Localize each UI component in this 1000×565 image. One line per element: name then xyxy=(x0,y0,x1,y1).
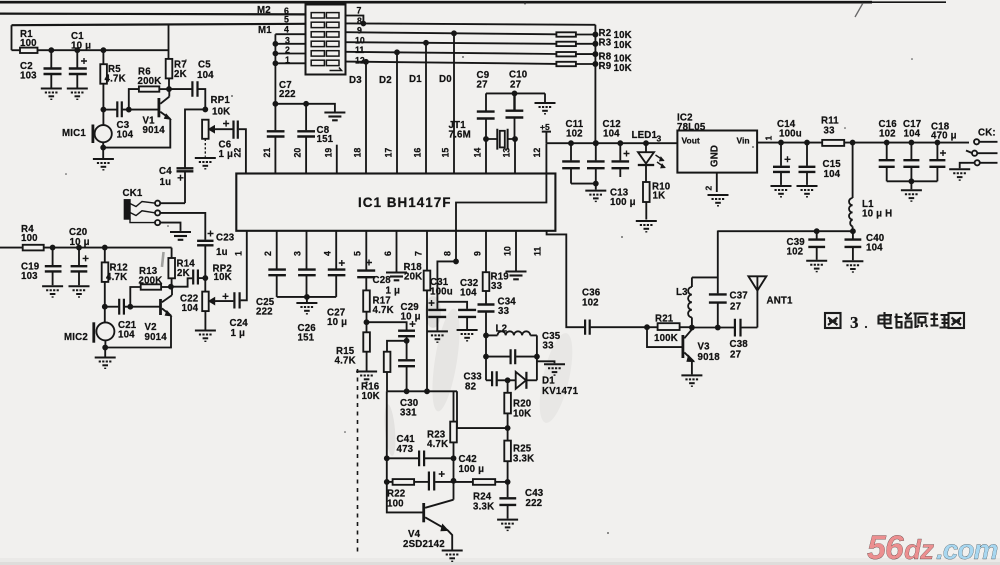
ground (C9/C10 link) xyxy=(544,93,546,102)
wire: CK1 tip to C4 xyxy=(160,202,185,204)
svg-text:4: 4 xyxy=(284,25,289,35)
wire: C9/C10 top link xyxy=(486,92,545,94)
resistor R19 xyxy=(483,272,490,291)
node: R14 bottom xyxy=(169,285,173,289)
capacitor C33 xyxy=(486,379,491,381)
svg-text:1 μ: 1 μ xyxy=(219,149,234,160)
wire: M1 tap down to R1 xyxy=(11,25,13,50)
resistor R24 xyxy=(454,481,473,483)
svg-text:470 μ: 470 μ xyxy=(931,131,957,142)
svg-text:104: 104 xyxy=(824,169,841,180)
transistor V1 (9014) xyxy=(157,98,160,117)
svg-text:100: 100 xyxy=(20,38,37,49)
ground (pin 10) xyxy=(506,272,527,280)
svg-text:20: 20 xyxy=(293,148,303,158)
svg-text:D0: D0 xyxy=(439,74,452,85)
capacitor C40 xyxy=(852,231,854,238)
node: MIC2 bottom xyxy=(103,346,107,350)
svg-text:222: 222 xyxy=(526,498,543,509)
node: LED1 tap xyxy=(644,141,648,145)
wire: DIP row 10 to R3 xyxy=(346,42,557,44)
svg-text:9018: 9018 xyxy=(698,352,721,363)
svg-text:8: 8 xyxy=(443,251,453,256)
svg-text:33: 33 xyxy=(498,306,510,317)
node: row3 junction xyxy=(273,42,277,46)
ground (RP2) xyxy=(195,331,216,342)
svg-text:27: 27 xyxy=(730,302,741,313)
wire: M2 bus (DIP row 6) xyxy=(0,13,306,16)
wire: Vin to C14 rail xyxy=(757,142,969,144)
watermark 56dz.com xyxy=(867,529,997,565)
node: C14 tap xyxy=(779,141,783,145)
svg-text:10K: 10K xyxy=(614,63,632,74)
capacitor C23 (electrolytic) xyxy=(197,241,213,246)
svg-text:1 μ: 1 μ xyxy=(231,328,246,339)
wire: pin 6 lead xyxy=(396,231,398,272)
svg-text:D3: D3 xyxy=(349,75,362,86)
resistor R14 xyxy=(171,248,173,258)
svg-text:10K: 10K xyxy=(214,272,232,283)
svg-text:10 μ: 10 μ xyxy=(401,312,421,323)
capacitor C37 xyxy=(717,231,719,294)
ground (C11/C12) xyxy=(595,184,597,190)
wire: C25-C27 ground bus xyxy=(277,296,337,298)
node: R8 common xyxy=(593,52,597,56)
wire: D1 vertical to pin 16 xyxy=(425,43,427,174)
svg-text:4.7K: 4.7K xyxy=(427,439,448,450)
capacitor C7 xyxy=(274,104,276,131)
wire: R2-R9 rights to +5 vertical xyxy=(576,35,596,65)
ground (C39) xyxy=(806,261,827,272)
capacitor C41 xyxy=(387,457,418,459)
capacitor C39 xyxy=(816,231,818,238)
node: C35 left xyxy=(484,355,488,359)
wire: oscillator bus xyxy=(387,390,457,392)
node: crystal right xyxy=(513,137,517,141)
wire: DIP row 3 xyxy=(275,43,305,45)
resistor R23 xyxy=(453,391,455,421)
resistor R15 xyxy=(366,322,368,332)
node: R18 on bus xyxy=(425,389,429,393)
node: L1 tap xyxy=(851,141,855,145)
resistor R12 xyxy=(104,248,106,263)
connector CK2 xyxy=(974,139,979,144)
wire: pin 19 stub xyxy=(336,145,338,174)
wire: DIP row 1 xyxy=(275,62,305,64)
node: L1/C40 xyxy=(851,229,855,233)
svg-text:7.6M: 7.6M xyxy=(449,130,471,141)
node: C29/C30/R16 xyxy=(405,339,409,343)
capacitor C9 xyxy=(477,112,495,119)
wire: pin 10 lead xyxy=(515,231,517,271)
node: C42/R24/collector xyxy=(452,479,456,483)
wire: pin 21 lead xyxy=(274,137,276,173)
svg-text:19: 19 xyxy=(323,148,333,158)
capacitor C17 xyxy=(910,143,912,160)
resistor R4 xyxy=(23,245,44,251)
ground (C2) xyxy=(41,89,62,100)
node: C13 tap xyxy=(618,141,622,145)
wire: CK1 sleeve to ground xyxy=(160,223,180,231)
capacitor C32 xyxy=(458,310,476,317)
node: tank left top xyxy=(484,333,488,337)
svg-text:2: 2 xyxy=(704,186,714,191)
op-amp IC1 BH1417F body xyxy=(236,174,555,231)
svg-text:R21: R21 xyxy=(655,314,674,325)
wire: pin 9 lead xyxy=(485,231,487,272)
power +5 (pin12) xyxy=(542,131,551,133)
svg-text:200K: 200K xyxy=(139,276,163,287)
svg-text:10 μ: 10 μ xyxy=(71,41,91,52)
node: C41 right xyxy=(452,456,456,460)
svg-text:R3: R3 xyxy=(599,38,612,49)
resistor R5 xyxy=(102,50,104,64)
wire: osc left vertical xyxy=(387,391,424,512)
wire: pin 14 lead up through C9 xyxy=(485,93,487,173)
wire: V1 emitter down to mic ground line xyxy=(103,119,170,148)
svg-text:104: 104 xyxy=(118,330,135,341)
svg-text:10K: 10K xyxy=(614,40,632,51)
svg-text:D2: D2 xyxy=(379,75,392,86)
svg-text:102: 102 xyxy=(879,129,896,140)
svg-text:20K: 20K xyxy=(404,272,422,283)
scratch mark top right xyxy=(855,3,863,17)
svg-text:100 μ: 100 μ xyxy=(459,464,485,475)
node: C8 top xyxy=(304,102,308,106)
svg-text:GND: GND xyxy=(710,145,721,167)
capacitor C42 (electrolytic) xyxy=(414,481,428,483)
wire: M1 bus (DIP row 5) xyxy=(12,24,306,25)
svg-text:16: 16 xyxy=(413,148,423,158)
svg-text:4: 4 xyxy=(322,251,332,256)
capacitor C28 (electrolytic) xyxy=(357,271,375,278)
ground (C7/C8) xyxy=(324,113,345,121)
capacitor C26 xyxy=(298,270,316,276)
wire: R6 right to R7 node xyxy=(159,88,169,90)
capacitor C21 xyxy=(105,306,119,308)
ground (C19) xyxy=(42,286,63,297)
transistor V3 (9018) xyxy=(682,335,685,358)
svg-text:11: 11 xyxy=(355,45,364,55)
wire: V2 emitter to mic ground line xyxy=(105,316,171,348)
potentiometer RP2 xyxy=(204,278,206,292)
node: C17 tap xyxy=(909,141,913,145)
svg-text:100: 100 xyxy=(21,233,38,244)
wire: pin 5 lead xyxy=(365,231,367,270)
svg-text:104: 104 xyxy=(866,243,883,254)
svg-text:222: 222 xyxy=(256,307,273,318)
svg-text:102: 102 xyxy=(787,247,804,258)
svg-text:C28: C28 xyxy=(373,275,392,286)
ground (R15) xyxy=(356,372,377,383)
node: MIC1 bottom xyxy=(101,146,105,150)
svg-text:IC1 BH1417F: IC1 BH1417F xyxy=(358,195,452,210)
svg-text:9014: 9014 xyxy=(143,125,166,136)
node: C18 tap xyxy=(935,141,939,145)
svg-text:10 μ H: 10 μ H xyxy=(862,209,892,220)
capacitor C18 (electrolytic) xyxy=(936,143,938,160)
svg-text:103: 103 xyxy=(21,271,38,282)
svg-text:11: 11 xyxy=(533,247,543,256)
resistor R25 xyxy=(504,441,511,462)
wire: pin 20 lead xyxy=(305,137,307,173)
wire: collector node to C38 xyxy=(692,327,734,329)
potentiometer RP1 xyxy=(202,120,209,139)
capacitor C13 (electrolytic) xyxy=(619,143,621,160)
node: C7 top xyxy=(273,102,277,106)
svg-text:M2: M2 xyxy=(257,5,271,16)
transistor V2 (9014) xyxy=(159,299,162,315)
svg-text:10K: 10K xyxy=(362,391,380,402)
inductor L1 xyxy=(852,143,854,198)
antenna ANT1 xyxy=(756,276,758,327)
svg-text:33: 33 xyxy=(824,126,836,137)
ground (C15) xyxy=(797,186,818,197)
LED LED1 xyxy=(645,143,647,152)
wire: bus right jog to R20/R25 xyxy=(457,391,508,428)
svg-text:6: 6 xyxy=(383,251,393,256)
capacitor C22 xyxy=(171,278,192,286)
node: RP2 top / C22 xyxy=(203,276,207,280)
ground (C40) xyxy=(842,261,863,272)
svg-text:331: 331 xyxy=(400,408,417,419)
wire: mic1 supply rail xyxy=(38,49,169,51)
ground (pin 6) xyxy=(386,273,407,281)
svg-text:3.3K: 3.3K xyxy=(473,502,494,513)
svg-text:C38: C38 xyxy=(730,339,749,350)
node: C39 xyxy=(815,229,819,233)
svg-text:33: 33 xyxy=(491,281,503,292)
ground (C1) xyxy=(67,89,88,100)
capacitor C16 xyxy=(886,143,888,160)
svg-text:8: 8 xyxy=(357,16,362,26)
ground (C31) xyxy=(427,331,448,342)
svg-text:MIC1: MIC1 xyxy=(62,128,86,139)
wire: V3 base feed xyxy=(647,327,683,347)
svg-text:103: 103 xyxy=(20,71,37,82)
node: crystal left xyxy=(484,137,488,141)
wire: D2 vertical to pin 17 xyxy=(396,52,398,173)
svg-text:13: 13 xyxy=(502,148,512,158)
node: R17/R15/C29 xyxy=(365,320,369,324)
svg-text:10 μ: 10 μ xyxy=(70,237,90,248)
resistor R3 xyxy=(556,42,576,46)
node: R20/R25 junction xyxy=(506,426,510,430)
svg-text:10: 10 xyxy=(355,36,365,46)
svg-text:1u: 1u xyxy=(160,177,172,188)
wire: DIP row 9 to R2 xyxy=(346,32,557,34)
svg-text:1K: 1K xyxy=(653,191,666,202)
ground (CK2) xyxy=(949,169,970,180)
svg-text:27: 27 xyxy=(477,80,488,91)
svg-text:104: 104 xyxy=(603,129,620,140)
capacitor C27 (electrolytic) xyxy=(328,270,346,276)
node: R12 tap xyxy=(103,246,107,250)
wire: pin 2 lead xyxy=(276,231,278,269)
svg-text:2K: 2K xyxy=(177,268,190,279)
ground (C16-C18) xyxy=(910,181,912,189)
resistor R20 xyxy=(507,380,509,393)
svg-text:104: 104 xyxy=(460,288,477,299)
svg-text:4.7K: 4.7K xyxy=(106,272,127,283)
svg-text:R9: R9 xyxy=(599,61,612,72)
wire: C32 branch xyxy=(437,302,467,309)
ground (RP1) xyxy=(195,158,216,169)
capacitor C30 xyxy=(406,341,408,360)
svg-text:C4: C4 xyxy=(159,166,172,177)
ground (V3) xyxy=(681,375,702,386)
wire: DIP row 7 stub xyxy=(346,16,364,24)
wire: M1-line tap down to R7 xyxy=(168,25,170,59)
ground (C14) xyxy=(771,186,792,197)
svg-text:100u: 100u xyxy=(430,287,453,298)
svg-text:104: 104 xyxy=(904,129,921,140)
ground (IC2 GND pin) xyxy=(708,195,729,206)
svg-text:473: 473 xyxy=(397,444,414,455)
svg-text:27: 27 xyxy=(730,350,741,361)
resistor R16 xyxy=(384,352,391,372)
node: row2 junction xyxy=(273,52,277,56)
capacitor C36 xyxy=(585,320,590,335)
svg-text:L3: L3 xyxy=(676,287,688,298)
wire: rows 1-4 common vertical xyxy=(274,34,276,104)
node: C11 tap xyxy=(569,141,573,145)
capacitor C2 xyxy=(50,50,52,67)
svg-text:2SD2142: 2SD2142 xyxy=(403,539,445,550)
svg-text:104: 104 xyxy=(117,130,134,141)
node: R9 common xyxy=(593,62,597,66)
ground (V4) xyxy=(442,551,463,562)
dashed margin line xyxy=(357,369,359,554)
node: C26 gnd xyxy=(305,295,309,299)
resistor R9 xyxy=(556,62,576,66)
wire: C29 top branch xyxy=(367,322,407,330)
svg-text:CK:: CK: xyxy=(978,128,996,139)
ground (C32) xyxy=(457,330,478,341)
svg-text:14: 14 xyxy=(472,148,482,158)
svg-text:1u: 1u xyxy=(216,247,228,258)
wire: tank right to ground xyxy=(537,361,555,363)
resistor R2 xyxy=(556,32,576,36)
svg-text:+5: +5 xyxy=(540,122,550,132)
svg-text:C37: C37 xyxy=(730,291,748,302)
svg-text:104: 104 xyxy=(197,70,214,81)
wire: pull-up common vertical to +5 rail xyxy=(594,25,596,143)
svg-text:9: 9 xyxy=(472,251,482,256)
node: C1 tap xyxy=(75,48,79,52)
wire: pin 13 lead xyxy=(514,139,516,174)
node: R6-left/base xyxy=(127,108,131,112)
wire: tank right vertical xyxy=(536,335,538,380)
capacitor C11 xyxy=(570,143,572,160)
svg-text:102: 102 xyxy=(566,129,583,140)
capacitor C34 xyxy=(478,305,495,312)
node: C2 tap xyxy=(49,48,53,52)
svg-text:151: 151 xyxy=(298,333,315,344)
node: D0 tap on row9 xyxy=(452,31,456,35)
capacitor C35 xyxy=(486,356,510,358)
resistor R8 xyxy=(556,52,576,56)
svg-text:100 μ: 100 μ xyxy=(610,197,636,208)
wire: DIP row 2 xyxy=(275,53,305,55)
node: row1 junction xyxy=(273,61,277,65)
node: C15 tap xyxy=(805,141,809,145)
svg-text:222: 222 xyxy=(279,89,296,100)
wire: pin 7 lead xyxy=(426,231,428,271)
capacitor C38 xyxy=(735,319,741,337)
resistor R17 xyxy=(363,290,370,311)
svg-text:4.7K: 4.7K xyxy=(373,305,394,316)
svg-text:3: 3 xyxy=(850,313,859,332)
capacitor C8 xyxy=(305,104,307,131)
ground (CK1) xyxy=(170,232,191,240)
wire: C16-C18 ground bus xyxy=(887,180,938,182)
switch S1 (6x DIP switch) xyxy=(306,5,346,75)
node: C19 tap xyxy=(51,246,55,250)
wire: D0 vertical to pin 15 xyxy=(453,33,455,173)
node: D3 tap on row12 xyxy=(364,60,368,64)
svg-text:V3: V3 xyxy=(698,342,711,353)
node: R3 common xyxy=(593,42,597,46)
wire: R13 right to R14 node xyxy=(161,286,171,288)
ground (C20) xyxy=(69,286,90,297)
svg-text:ANT1: ANT1 xyxy=(767,296,794,307)
top border line xyxy=(0,1,872,4)
inductor L3 xyxy=(692,276,718,278)
node: R25/C43/R24 xyxy=(506,480,510,484)
wire: R13 left leg xyxy=(130,287,140,307)
node: gnd bus xyxy=(594,182,598,186)
resistor R13 xyxy=(141,284,161,289)
svg-text:M1: M1 xyxy=(258,25,272,36)
wire: D3 vertical to pin 18 xyxy=(365,62,367,174)
svg-text:CK1: CK1 xyxy=(123,188,143,199)
wire: R16 branch xyxy=(387,341,407,352)
wire: DIP row 8 to pull-up common xyxy=(346,23,596,24)
transistor V4 (2SD2142) xyxy=(422,503,425,522)
node: C16 tap xyxy=(885,141,889,145)
capacitor C10 xyxy=(506,93,524,117)
capacitor C25 xyxy=(268,270,286,276)
node: D2 tap on row11 xyxy=(395,50,399,54)
node: C10 top xyxy=(513,91,517,95)
svg-text:82: 82 xyxy=(465,382,476,393)
svg-text:Vout: Vout xyxy=(682,136,700,146)
svg-text:18: 18 xyxy=(353,148,363,158)
wire: pin 4 lead xyxy=(335,231,337,269)
regulator IC2 78L05 xyxy=(677,131,757,173)
wire: tank left vertical xyxy=(485,335,487,380)
capacitor C43 xyxy=(499,498,516,505)
svg-text:1: 1 xyxy=(233,251,243,256)
resistor R11 xyxy=(822,140,844,146)
caption: 图 3 电路原理图 (hand-drawn strokes) xyxy=(825,312,964,332)
svg-text:5: 5 xyxy=(284,15,289,25)
resistor R10 xyxy=(643,182,650,202)
svg-text:12: 12 xyxy=(355,56,365,66)
wire: C11/C12 ground bus xyxy=(571,183,596,185)
node: R7 bottom / C5 xyxy=(167,87,171,91)
capacitor C15 xyxy=(806,143,808,166)
wire: pin12 feed into IC / pin8 through-route xyxy=(456,143,546,261)
svg-text:17: 17 xyxy=(384,148,394,158)
svg-text:4.7K: 4.7K xyxy=(335,356,356,367)
svg-text:3: 3 xyxy=(285,36,290,46)
capacitor C20 (electrolytic) xyxy=(78,248,80,266)
wire: R6 left leg xyxy=(129,89,139,110)
capacitor C24 (electrolytic, to pin1) xyxy=(216,300,233,302)
node: D1 tap on row10 xyxy=(424,41,428,45)
